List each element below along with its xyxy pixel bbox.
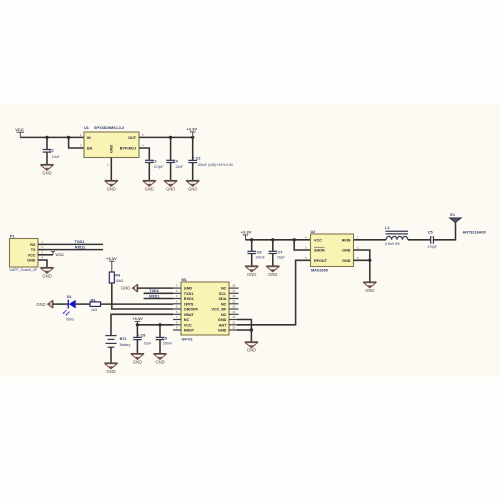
svg-text:UART_Socket_4P: UART_Socket_4P (10, 268, 38, 272)
wire EN branch (69, 137, 84, 148)
svg-text:1PPS: 1PPS (184, 302, 194, 306)
svg-text:GND: GND (110, 145, 114, 154)
svg-text:470pF: 470pF (428, 245, 438, 249)
svg-text:E1: E1 (450, 213, 455, 217)
svg-text:C6: C6 (257, 250, 262, 254)
svg-text:BYP/ADJ: BYP/ADJ (120, 147, 136, 151)
svg-text:D1: D1 (67, 295, 72, 299)
ground under battery (105, 363, 118, 374)
svg-text:10uF: 10uF (175, 165, 183, 169)
node junction C4 (169, 136, 172, 139)
svg-text:NC: NC (221, 287, 227, 291)
svg-text:100nF: 100nF (255, 256, 265, 260)
svg-text:GND: GND (42, 273, 51, 278)
svg-text:GND: GND (27, 259, 36, 263)
wire U2 GND pin5 (354, 259, 370, 261)
svg-text:TXD1: TXD1 (184, 292, 194, 296)
wire ANT to RFOUT (237, 260, 311, 325)
svg-text:GND: GND (184, 287, 193, 291)
svg-text:NC: NC (184, 318, 190, 322)
svg-text:+: + (193, 156, 195, 160)
svg-text:RFIN: RFIN (342, 238, 351, 242)
ground under U2 (363, 282, 376, 293)
node junction U2 GND (368, 259, 371, 262)
svg-text:14: 14 (232, 305, 235, 309)
svg-text:BT1: BT1 (120, 337, 127, 341)
node junction C7 (271, 238, 274, 241)
capacitor C4 (166, 137, 183, 180)
wire pin1 GND (138, 287, 173, 289)
svg-text:GND: GND (268, 272, 277, 277)
svg-text:GND: GND (145, 186, 154, 191)
IC U2 MAX2659 (305, 230, 359, 273)
wire C5 to antenna (433, 222, 455, 240)
diode D1 LED (63, 295, 76, 322)
svg-text:GND: GND (155, 359, 164, 364)
wire socket GND (38, 260, 47, 268)
svg-text:C9: C9 (162, 336, 167, 340)
svg-text:GND: GND (218, 318, 227, 322)
svg-text:NC: NC (221, 313, 227, 317)
ground under C6 (245, 266, 258, 277)
svg-text:+3.3V: +3.3V (186, 127, 197, 132)
node junction SHDN (293, 238, 296, 241)
svg-text:11: 11 (232, 320, 235, 324)
svg-text:C8: C8 (141, 334, 146, 338)
inductor L1 (385, 226, 408, 246)
pin stubs GP-02 right (229, 288, 239, 330)
power port VCC socket (38, 252, 64, 258)
svg-text:0603: 0603 (66, 318, 74, 322)
wire VCC to U1 IN (20, 136, 84, 138)
svg-text:470pF: 470pF (154, 165, 164, 169)
wire module GND pin12 (237, 320, 251, 331)
svg-text:U1: U1 (84, 126, 89, 130)
svg-text:SCL: SCL (219, 292, 227, 296)
capacitor C1 (43, 137, 60, 164)
svg-text:12: 12 (232, 315, 235, 319)
svg-text:SPX3819M5J-3.3: SPX3819M5J-3.3 (94, 126, 124, 130)
svg-text:VCC: VCC (28, 253, 36, 257)
svg-text:VCC: VCC (55, 252, 64, 257)
svg-text:MAX2659: MAX2659 (311, 269, 328, 273)
ground sideways for GP-02 pin1 (121, 284, 138, 292)
svg-text:ON/OFF: ON/OFF (184, 308, 199, 312)
IC M1 GP-02 module (181, 278, 229, 341)
svg-text:TXD1: TXD1 (149, 289, 159, 293)
power port +3.3V out (186, 127, 197, 138)
svg-text:10uF: 10uF (52, 155, 60, 159)
capacitor C2 polarized (188, 137, 233, 180)
svg-text:C7: C7 (278, 250, 283, 254)
ground under C4 (164, 181, 177, 192)
svg-text:GND: GND (133, 359, 142, 364)
svg-text:EN: EN (87, 147, 93, 151)
svg-text:C1: C1 (49, 149, 54, 153)
svg-text:L1: L1 (385, 226, 389, 230)
resistor R4 (109, 272, 123, 283)
svg-text:6.8nH 5%: 6.8nH 5% (385, 242, 400, 246)
wire +3.3V to VCC pin (137, 324, 173, 326)
capacitor C6 (247, 240, 264, 266)
svg-text:TXD1: TXD1 (75, 240, 85, 244)
svg-text:100uF (10Ω)+10% 6.3V: 100uF (10Ω)+10% 6.3V (197, 163, 234, 167)
capacitor C8 polarized (133, 325, 151, 354)
antenna E1 (450, 213, 486, 234)
wire U1 GND pin (110, 158, 112, 181)
svg-text:10uF: 10uF (144, 342, 152, 346)
svg-text:+3.3V: +3.3V (132, 316, 143, 321)
svg-text:GND: GND (247, 348, 256, 353)
wire down to ground (369, 260, 371, 282)
svg-text:RX: RX (30, 243, 36, 247)
svg-text:VBAT: VBAT (184, 313, 195, 317)
wire TXD1 to module (144, 292, 173, 294)
capacitor C7 (269, 240, 285, 266)
node junction EN branch (67, 136, 70, 139)
svg-text:ANT: ANT (219, 323, 227, 327)
ground under module (245, 342, 258, 353)
svg-text:NRST: NRST (184, 329, 195, 333)
ground under C7 (266, 266, 279, 277)
power port +3.3V for U2 (241, 230, 252, 240)
svg-text:U2: U2 (311, 230, 316, 234)
svg-text:C5: C5 (428, 230, 433, 234)
wire R4 to ON/OFF (112, 283, 173, 309)
ground under U1 (105, 181, 118, 192)
wire SHDN tie (294, 240, 310, 250)
svg-text:13: 13 (232, 310, 235, 314)
svg-text:NC: NC (221, 302, 227, 306)
svg-text:+: + (138, 333, 140, 337)
wire VBAT to battery (111, 314, 173, 335)
svg-text:18: 18 (232, 284, 235, 288)
node junction C6 (250, 238, 253, 241)
ground under socket (41, 268, 54, 279)
svg-text:C2: C2 (196, 156, 201, 160)
svg-text:GND: GND (166, 186, 175, 191)
node junction C1 (45, 136, 48, 139)
background sheet tint (0, 104, 500, 377)
capacitor C3 (145, 159, 163, 180)
wire L1 to C5 (408, 239, 431, 241)
svg-text:+3.3V: +3.3V (241, 230, 252, 235)
node junction C9 (158, 323, 161, 326)
wire GND to LED (53, 303, 69, 305)
wire 1PPS line (101, 303, 174, 305)
svg-text:OUT: OUT (128, 136, 137, 140)
svg-text:GND: GND (106, 369, 115, 374)
ground under C9 (154, 354, 167, 365)
battery BT1 (105, 336, 130, 363)
wire RFIN to L1 (354, 239, 387, 241)
svg-text:VCC: VCC (184, 323, 192, 327)
svg-text:RXD1: RXD1 (184, 297, 194, 301)
wire +3.3V rail to U2 VCC (246, 239, 311, 241)
wire LED to R3 (76, 303, 90, 305)
ground under C8 (131, 354, 144, 365)
svg-text:C3: C3 (152, 159, 157, 163)
svg-text:TX: TX (31, 248, 36, 252)
wire RXD1 from TX (38, 249, 103, 251)
wire RXD1 to module (144, 298, 173, 300)
resistor R3 (90, 298, 101, 312)
capacitor C9 (156, 325, 173, 354)
svg-text:ANT3216A00: ANT3216A00 (463, 230, 486, 234)
ground under C3 (143, 181, 156, 192)
svg-text:RFOUT: RFOUT (314, 259, 328, 263)
svg-text:GND: GND (107, 186, 116, 191)
node junction C8 (136, 323, 139, 326)
wire U2 GND pin2 (354, 250, 370, 260)
svg-text:RXD1: RXD1 (75, 246, 85, 250)
svg-text:SHDN: SHDN (314, 249, 325, 253)
svg-text:GND: GND (188, 186, 197, 191)
node junction +3.3V out (191, 136, 194, 139)
svg-text:10kΩ: 10kΩ (115, 279, 123, 283)
ground under C1 (41, 165, 54, 176)
ground under C2 (186, 181, 199, 192)
svg-text:GND: GND (342, 259, 351, 263)
wire module GND pin10 (237, 329, 251, 331)
power port +3.3V for R4 (106, 256, 117, 272)
svg-text:RXD1: RXD1 (149, 294, 159, 298)
wire down to ground (250, 330, 252, 342)
svg-text:GP-02: GP-02 (182, 338, 193, 342)
svg-text:GND: GND (36, 302, 45, 307)
svg-text:GND: GND (218, 329, 227, 333)
svg-text:100nF: 100nF (163, 342, 173, 346)
power port VCC input (15, 127, 24, 137)
pin numbers GP-02 left (176, 284, 178, 330)
svg-text:Battery: Battery (120, 343, 131, 347)
svg-text:GND: GND (42, 170, 51, 175)
svg-text:IN: IN (87, 136, 91, 140)
svg-text:GND: GND (121, 286, 130, 291)
svg-text:VCC_RF: VCC_RF (211, 308, 227, 312)
svg-text:VCC: VCC (15, 127, 24, 132)
node junction module GND (250, 328, 253, 331)
pin stubs GP-02 left (173, 288, 181, 330)
svg-text:15pF: 15pF (277, 256, 285, 260)
connector P1 UART socket (10, 235, 44, 273)
ground sideways for LED (36, 300, 53, 308)
svg-text:+3.3V: +3.3V (106, 256, 117, 261)
svg-text:GND: GND (365, 288, 374, 293)
power port +3.3V for module VCC (132, 316, 143, 325)
svg-text:SDA: SDA (218, 297, 226, 301)
capacitor C5 series (428, 230, 438, 249)
svg-text:1kΩ: 1kΩ (91, 308, 98, 312)
svg-text:17: 17 (232, 289, 235, 293)
pin numbers GP-02 right (232, 284, 235, 330)
wire BYP to C3 (139, 148, 149, 160)
svg-text:16: 16 (232, 294, 235, 298)
regulator U1 SPX3819 (80, 126, 144, 166)
svg-text:GND: GND (342, 249, 351, 253)
wire U1 OUT rail (139, 136, 193, 138)
svg-text:10: 10 (232, 326, 235, 330)
svg-text:GND: GND (247, 272, 256, 277)
wire TXD1 from RX (38, 243, 103, 245)
svg-text:VCC: VCC (314, 238, 322, 242)
svg-text:15: 15 (232, 299, 235, 303)
